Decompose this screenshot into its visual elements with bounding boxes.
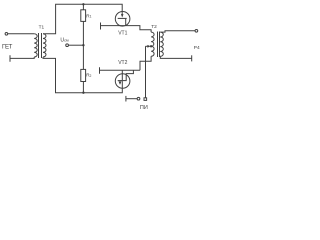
svg-text:VT1: VT1 [118, 30, 127, 36]
svg-text:VT2: VT2 [118, 60, 127, 66]
svg-text:Р4: Р4 [194, 45, 200, 51]
svg-text:Uсм: Uсм [60, 38, 69, 44]
svg-text:R2: R2 [86, 73, 91, 79]
svg-text:ПИ: ПИ [140, 105, 148, 111]
svg-text:Т1: Т1 [39, 24, 45, 29]
svg-text:R1: R1 [86, 13, 91, 18]
svg-text:Т2: Т2 [151, 24, 157, 30]
svg-text:ГЕТ: ГЕТ [2, 44, 13, 51]
